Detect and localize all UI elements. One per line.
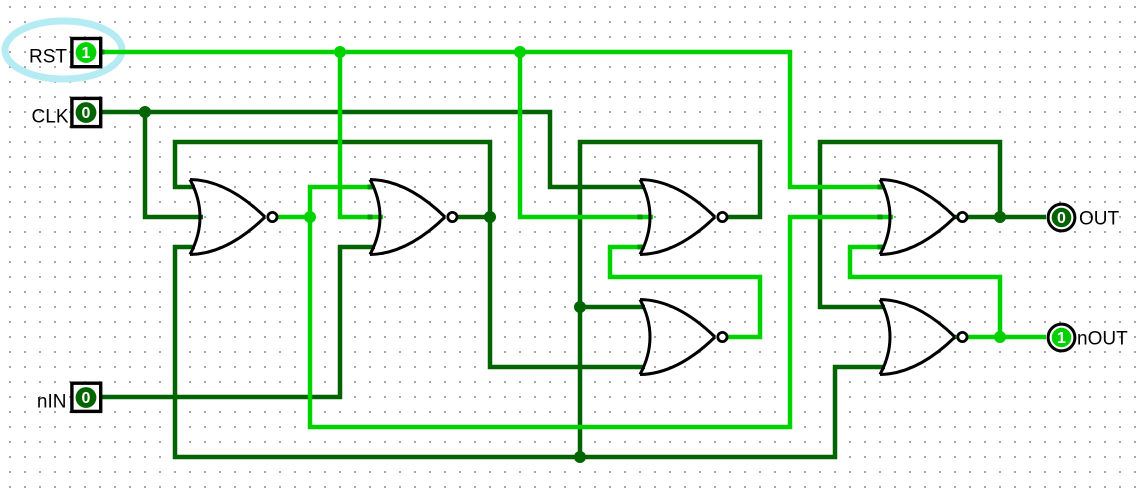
wire net Q1 branch: down to NOR U4 bottom input: [490, 217, 645, 367]
svg-text:OUT: OUT: [1079, 209, 1120, 230]
wire end nub at (880,217): [878, 215, 883, 220]
output pin nOUT value 1: [1048, 324, 1075, 351]
svg-text:1: 1: [82, 45, 91, 62]
junction CLK at (145,112): [139, 106, 151, 118]
wire net nIN: from nIN pin up to NOR U2 bottom input: [102, 247, 375, 397]
wire net nOUT: NOR U6 output to junction: [955, 335, 1000, 340]
input pin RST value 1: [72, 39, 101, 67]
wire net Q2 branch: up to NOR U2 top input: [310, 187, 375, 217]
wire net Q3 branch: bottom run right to NOR U6 bottom input: [580, 367, 885, 457]
wire end nub at (640,247): [638, 245, 643, 250]
wire net nOUT branch: junction to nOUT pin: [1000, 335, 1046, 340]
junction RST at (340,52): [334, 46, 346, 58]
wire net CLK branch: down from junction to NOR U1 middle input: [145, 112, 203, 217]
svg-text:nOUT: nOUT: [1077, 329, 1128, 350]
wire net RST branch: down to NOR U2 middle input: [340, 52, 383, 217]
wire end nub at (102,52): [100, 50, 105, 55]
svg-text:CLK: CLK: [32, 107, 69, 128]
svg-text:1: 1: [1057, 330, 1066, 347]
wire net Q4: NOR U4 output up and left to NOR U3 bottom input: [610, 247, 760, 337]
wire net Q3 stub: to NOR U4 top input: [580, 305, 645, 310]
NOR gate U6: [880, 300, 967, 375]
svg-text:RST: RST: [29, 47, 67, 68]
halo around RST pin: [5, 21, 122, 79]
input pin nIN value 0: [72, 383, 101, 411]
wire end nub at (370,217): [368, 215, 373, 220]
junction Q3 at (580,457): [574, 451, 586, 463]
wire net nOUT branch: feedback to NOR U5 bottom input: [850, 247, 1000, 337]
NOR gate U1: [190, 180, 277, 255]
svg-text:nIN: nIN: [37, 392, 67, 413]
junction nOUT at (1000,337): [994, 331, 1006, 343]
svg-text:0: 0: [1057, 210, 1066, 227]
NOR gate U3: [640, 180, 727, 255]
wire net CLK: from CLK pin right then down to NOR U3 top input: [102, 112, 645, 187]
wire net OUT branch: junction to OUT pin: [1000, 215, 1046, 220]
wire end nub at (880,247): [878, 245, 883, 250]
wire net Q2: NOR U1 output to junction: [275, 215, 310, 220]
wire net Q1: NOR U2 output to junction: [455, 215, 490, 220]
wire net OUT branch: feedback to NOR U6 top input: [820, 142, 1000, 307]
wire end nub at (640,217): [638, 215, 643, 220]
svg-text:0: 0: [82, 105, 91, 122]
junction Q1 at (490,217): [484, 211, 496, 223]
wire net Q3: NOR U3 output up over and down left side: [580, 142, 760, 457]
wire net Q1 branch: up feedback to NOR U1 top input: [175, 142, 490, 217]
junction RST at (520,52): [514, 46, 526, 58]
input pin CLK value 0: [72, 98, 101, 126]
junction OUT at (1000,217): [994, 211, 1006, 223]
wire net OUT: NOR U5 output to junction: [955, 215, 1000, 220]
junction Q3 at (580,307): [574, 301, 586, 313]
wire net RST: from RST pin right then down to NOR U5 top input: [102, 52, 885, 187]
wire end nub at (880,187): [878, 185, 883, 190]
output pin OUT value 0: [1048, 204, 1075, 231]
wire end nub at (370,187): [368, 185, 373, 190]
svg-text:0: 0: [82, 390, 91, 407]
wire net RST branch: down to NOR U3 middle input: [520, 52, 653, 217]
NOR gate U5: [880, 180, 967, 255]
NOR gate U2: [370, 180, 457, 255]
junction Q2 at (310,217): [304, 211, 316, 223]
wire net Q2 branch: down and right to NOR U5 middle input: [310, 217, 893, 427]
wire net Q3 branch: bottom run left to NOR U1 bottom input: [175, 247, 580, 457]
NOR gate U4: [640, 300, 727, 375]
